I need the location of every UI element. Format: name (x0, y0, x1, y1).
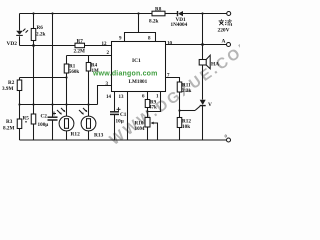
wire column x52 (52, 14, 54, 118)
svg-text:2.2k: 2.2k (36, 32, 45, 38)
label C1 (116, 112, 127, 125)
wire pin3 link (98, 86, 112, 105)
capacitor C1 (110, 92, 121, 140)
wire supply stubs pins 9 8 (125, 14, 156, 42)
resistor R3 (17, 105, 22, 141)
label R7 (74, 39, 85, 55)
thyristor V (180, 100, 206, 140)
svg-text:2.2M: 2.2M (74, 49, 85, 55)
wire pin10 row (166, 44, 227, 46)
resistor R5 (31, 114, 36, 140)
label 1N4004 (171, 22, 188, 28)
svg-text:220V: 220V (218, 28, 230, 34)
watermark diagonal (107, 35, 259, 149)
svg-text:13: 13 (119, 95, 125, 100)
watermark green (92, 71, 158, 78)
label HA (211, 62, 219, 68)
label R11 (182, 83, 191, 95)
pin 8 (148, 37, 151, 42)
svg-text:R8: R8 (155, 7, 162, 13)
label R13 (94, 133, 104, 139)
svg-text:VD2: VD2 (7, 41, 18, 47)
wire rail y105 (20, 104, 98, 106)
wire column x33 middle (33, 46, 35, 115)
speaker HA (199, 55, 210, 69)
pin 10 (167, 42, 173, 47)
svg-text:8.2k: 8.2k (149, 19, 158, 25)
resistor R6 (31, 14, 36, 46)
svg-text:10M: 10M (135, 126, 145, 132)
resistor R4 (86, 56, 91, 106)
label R9 (149, 101, 157, 111)
diode VD1 (178, 11, 184, 16)
svg-text:R5: R5 (23, 116, 30, 122)
label VD2 (7, 41, 18, 47)
wire speaker column (202, 14, 204, 100)
wire top rail (20, 13, 227, 15)
resistor R11 (177, 82, 182, 111)
label R6 (36, 25, 45, 38)
resistor R7 (75, 43, 85, 48)
terminal 0 (225, 134, 231, 143)
pin 3 (106, 82, 109, 87)
label LM1801 (129, 79, 148, 85)
svg-text:IC1: IC1 (132, 58, 141, 64)
svg-text:47k: 47k (149, 106, 157, 111)
svg-text:R4: R4 (91, 64, 98, 69)
pin 9 (119, 37, 122, 42)
svg-text:12: 12 (102, 42, 108, 47)
pin 1 (156, 95, 159, 100)
svg-text:3.9M: 3.9M (2, 86, 13, 92)
svg-text:10k: 10k (182, 124, 190, 130)
svg-text:V: V (208, 102, 212, 108)
pin 14 (106, 95, 112, 100)
label R10 (135, 121, 145, 133)
label V (208, 102, 212, 108)
pin 2 (107, 51, 110, 56)
pin 13 (119, 95, 125, 100)
svg-text:R7: R7 (77, 39, 84, 45)
resistor R12 lower (177, 111, 182, 141)
wire bottom rail (20, 139, 227, 141)
svg-text:www.diangon.com: www.diangon.com (92, 71, 158, 78)
wire left column upper (19, 14, 21, 46)
label R4 (91, 64, 99, 75)
photoresistor R13 (79, 105, 96, 141)
wire node row y45 (20, 45, 112, 47)
svg-text:8.2M: 8.2M (3, 126, 14, 132)
photoresistor R12 (57, 105, 74, 141)
svg-text:14: 14 (106, 95, 112, 100)
resistor R1 (64, 56, 69, 106)
label R2 (2, 80, 15, 92)
wire pin7 link (166, 78, 180, 83)
svg-text:560k: 560k (69, 70, 80, 75)
label R12 10k (182, 119, 191, 131)
svg-text:A: A (222, 39, 226, 45)
wire pin2 row y55 (67, 55, 112, 57)
label 220V AC (218, 19, 232, 33)
label R3 (3, 119, 14, 132)
terminal AC (227, 12, 231, 16)
svg-text:R6: R6 (37, 25, 44, 31)
label IC1 (132, 58, 141, 64)
svg-text:R1: R1 (69, 65, 76, 70)
node junction dots (18, 12, 204, 112)
svg-text:R12: R12 (71, 132, 81, 138)
label R5 (23, 116, 30, 123)
capacitor C2 (48, 112, 58, 141)
label VD1 (176, 17, 186, 23)
svg-text:HA: HA (211, 62, 219, 68)
potentiometer R10 (145, 112, 158, 141)
svg-text:LM1801: LM1801 (129, 79, 148, 85)
wire bias row y78 (20, 77, 67, 79)
wire pin1 link (148, 92, 161, 112)
label C2 (38, 114, 49, 129)
svg-text:R13: R13 (94, 133, 104, 139)
resistor R2 (17, 78, 22, 105)
svg-text:1N4004: 1N4004 (171, 22, 188, 28)
pin 7 (167, 74, 170, 79)
label R12 (71, 132, 81, 138)
svg-text:10µ: 10µ (116, 119, 124, 125)
label R1 (69, 65, 80, 75)
svg-text:2.2k: 2.2k (182, 88, 191, 94)
pin 12 (102, 42, 108, 47)
svg-text:C1: C1 (120, 112, 127, 118)
svg-text:C2: C2 (41, 114, 48, 120)
label R8 (149, 7, 162, 25)
photodiode VD2 (16, 29, 28, 36)
pin 6 (142, 95, 145, 100)
op-amp IC1 box (112, 42, 166, 92)
svg-text:100µ: 100µ (38, 122, 49, 128)
resistor R8 (152, 11, 165, 16)
svg-text:R3: R3 (6, 119, 13, 125)
resistor R9 (145, 92, 150, 112)
wire pin13 column (127, 92, 129, 140)
terminal A (222, 39, 231, 47)
